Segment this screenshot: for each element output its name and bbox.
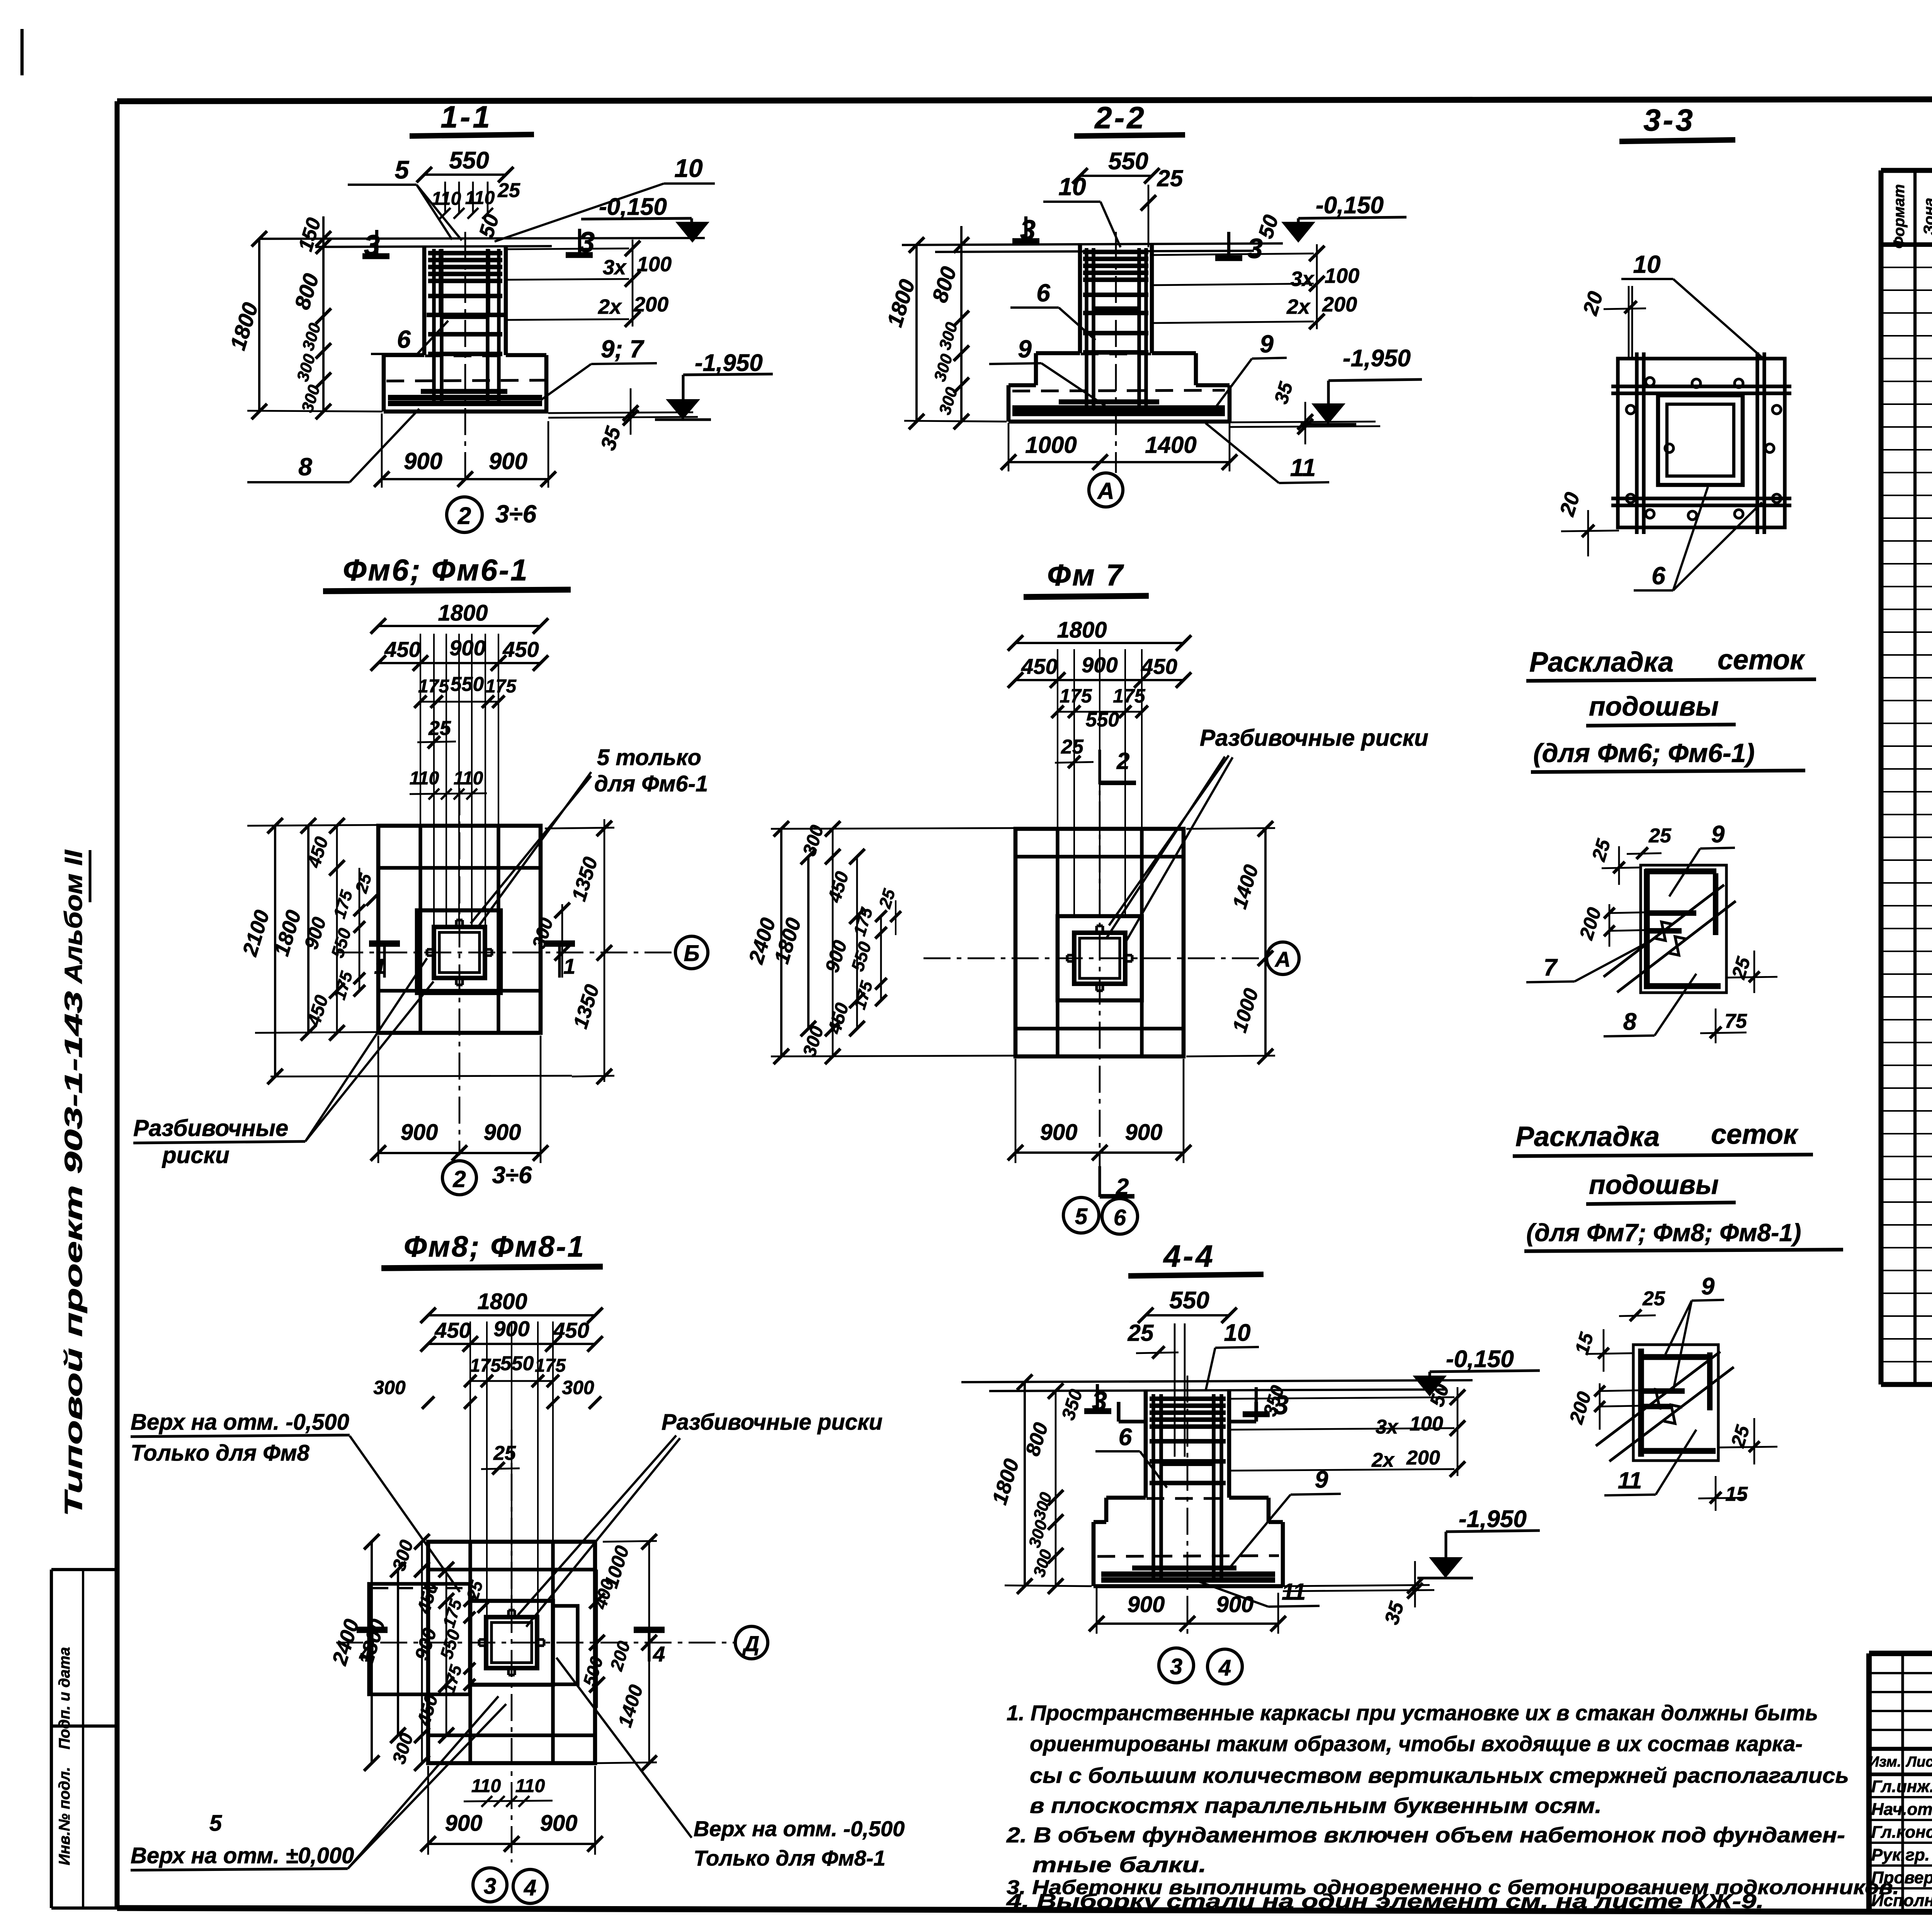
svg-text:175: 175 [1060, 685, 1092, 707]
svg-text:Разбивочные риски: Разбивочные риски [662, 1410, 883, 1435]
svg-text:подошвы: подошвы [1589, 691, 1719, 721]
svg-text:3: 3 [1170, 1654, 1182, 1679]
svg-text:550: 550 [500, 1352, 534, 1375]
socket inner square [1080, 938, 1120, 978]
svg-text:1800: 1800 [882, 277, 920, 330]
svg-text:1000: 1000 [1025, 432, 1077, 458]
svg-text:300: 300 [389, 1731, 417, 1766]
svg-text:550: 550 [1086, 709, 1119, 731]
svg-text:110: 110 [465, 188, 495, 208]
svg-text:9: 9 [1260, 330, 1274, 358]
svg-text:550: 550 [1169, 1287, 1209, 1314]
svg-text:75: 75 [1725, 1010, 1747, 1032]
svg-text:Только для Фм8: Только для Фм8 [131, 1440, 310, 1466]
svg-text:300: 300 [935, 320, 961, 352]
risk tabs [507, 1610, 510, 1617]
plan Фм6 podkolonnik square [417, 910, 501, 993]
svg-text:900: 900 [401, 1120, 438, 1145]
svg-text:3÷6: 3÷6 [495, 500, 537, 528]
svg-text:4: 4 [359, 1642, 371, 1666]
svg-text:110: 110 [432, 189, 461, 209]
svg-text:Раскладка: Раскладка [1529, 647, 1673, 678]
svg-text:Д: Д [742, 1631, 759, 1656]
svg-text:2100: 2100 [238, 908, 274, 959]
svg-text:20: 20 [1578, 289, 1607, 318]
svg-text:25: 25 [493, 1442, 516, 1464]
svg-text:25: 25 [1648, 825, 1672, 847]
svg-text:9: 9 [1711, 821, 1725, 848]
svg-text:550: 550 [449, 147, 489, 174]
svg-text:200: 200 [1322, 293, 1357, 316]
svg-text:175: 175 [485, 676, 517, 697]
section 1-1 pedestal step [384, 353, 424, 357]
section 1-1 hidden dashed lines [425, 354, 505, 357]
svg-text:7: 7 [1544, 954, 1558, 981]
plan Фм6 inner verticals [418, 826, 422, 1033]
svg-text:(для Фм7; Фм8; Фм8-1): (для Фм7; Фм8; Фм8-1) [1526, 1219, 1801, 1247]
svg-text:200: 200 [606, 1639, 634, 1673]
section 4-4 centerline [1187, 1376, 1189, 1638]
section 4-4 footing mesh [1132, 1566, 1236, 1571]
svg-text:10: 10 [1058, 173, 1086, 201]
section 3-3 bar end dots [1646, 378, 1654, 386]
section 1-1 centerline [464, 232, 466, 479]
svg-text:9: 9 [1018, 335, 1032, 363]
svg-text:3x: 3x [603, 256, 627, 279]
svg-text:риски: риски [162, 1142, 230, 1168]
section 4-4 dim verticals into socket [1174, 1323, 1176, 1457]
plan Фм6 left ext lines [247, 825, 378, 826]
plan Фм8 cut mark 4 right [634, 1627, 665, 1633]
raskladka 2 break diagonals [1596, 1352, 1720, 1446]
section 1-1 bottom ext lines [548, 412, 693, 413]
section 3-3 vertical struts [1635, 352, 1638, 534]
section 4-4 bars [1150, 1396, 1226, 1401]
svg-text:ориентированы таким образом,: ориентированы таким образом, чтобы входя… [1030, 1731, 1803, 1756]
plan Фм8 axis circle Д [735, 1626, 768, 1659]
svg-text:-0,150: -0,150 [599, 194, 667, 220]
svg-text:2x: 2x [1371, 1449, 1395, 1471]
plan Фм6 inner horizontals [378, 866, 541, 869]
svg-text:450: 450 [434, 1318, 471, 1342]
svg-text:900: 900 [411, 1626, 441, 1663]
svg-text:3: 3 [1247, 233, 1263, 264]
section 1-1 footing bottom [384, 410, 548, 414]
plan Фм6 extension verticals from dims [420, 634, 421, 927]
socket inner square [492, 1622, 532, 1663]
plan Фм8 cut mark 4 left [357, 1627, 388, 1633]
svg-text:1400: 1400 [1145, 432, 1196, 458]
svg-text:1: 1 [374, 954, 386, 978]
plan Фм7 left ext lines [771, 828, 1015, 829]
svg-text:350: 350 [1058, 1387, 1087, 1422]
svg-text:25: 25 [497, 179, 520, 202]
socket inner square [439, 932, 480, 973]
svg-text:Зона: Зона [1921, 198, 1932, 235]
plan Фм6 cut mark 1 right [544, 940, 575, 947]
svg-text:9: 9 [1701, 1273, 1715, 1300]
svg-text:Подп. и дата: Подп. и дата [56, 1647, 73, 1750]
svg-text:4: 4 [1218, 1655, 1231, 1680]
svg-text:Альбом II: Альбом II [60, 850, 87, 985]
section 2-2 bars [1083, 250, 1148, 254]
svg-text:300: 300 [298, 383, 324, 415]
svg-text:300: 300 [1025, 1518, 1051, 1550]
svg-text:1400: 1400 [1228, 862, 1263, 912]
svg-text:Гл.инж.пр.: Гл.инж.пр. [1871, 1777, 1932, 1796]
svg-text:550: 550 [327, 926, 355, 960]
svg-text:в плоскостях параллельным бу: в плоскостях параллельным буквенным осям… [1030, 1793, 1602, 1818]
plan Фм8 outer rect [428, 1542, 595, 1763]
socket outer square [1074, 933, 1125, 984]
svg-text:1800: 1800 [988, 1456, 1024, 1507]
svg-text:500: 500 [579, 1654, 607, 1689]
svg-text:175: 175 [330, 969, 356, 1002]
raskladka 2 rect [1633, 1345, 1718, 1461]
svg-text:110: 110 [515, 1776, 545, 1796]
plan Фм7 inner verticals [1056, 829, 1059, 1056]
section 4-4 stakan [1159, 1396, 1163, 1463]
svg-text:25: 25 [352, 871, 376, 896]
section 4-4 column [1144, 1391, 1148, 1498]
svg-text:15: 15 [1725, 1483, 1748, 1505]
svg-text:20: 20 [1555, 490, 1584, 519]
svg-text:подошвы: подошвы [1589, 1170, 1719, 1200]
svg-text:сы с большим количеством ве: сы с большим количеством вертикальных ст… [1030, 1763, 1849, 1787]
svg-text:1: 1 [563, 954, 575, 978]
section 1-1 ground lines [260, 238, 705, 239]
svg-text:200: 200 [1565, 1389, 1595, 1427]
plan Фм8 inner verticals [468, 1542, 472, 1763]
socket outer square [434, 927, 485, 978]
svg-text:50: 50 [474, 211, 503, 240]
svg-text:1400: 1400 [614, 1682, 647, 1730]
svg-text:450: 450 [413, 1692, 442, 1728]
raskladka 1 break diagonals [1604, 885, 1724, 977]
svg-text:2: 2 [452, 1166, 466, 1192]
svg-text:Верх на отм. -0,500: Верх на отм. -0,500 [694, 1816, 905, 1841]
svg-text:2x: 2x [598, 295, 622, 318]
plan Фм7 ext verticals [1057, 649, 1058, 916]
raskladka 1 mesh bars [1645, 868, 1716, 874]
svg-text:450: 450 [1021, 654, 1057, 679]
svg-text:100: 100 [1410, 1413, 1443, 1435]
section 4-4 hidden dashed [1146, 1497, 1228, 1500]
svg-text:А: А [1274, 947, 1291, 971]
svg-text:Лист: Лист [1905, 1754, 1932, 1770]
plan Фм8 axis circles 3 4 [473, 1868, 507, 1902]
section 1-1 horizontal bars [428, 251, 502, 255]
section 2-2 footing [1009, 383, 1036, 388]
section 4-4 ground lines [961, 1380, 1473, 1382]
svg-text:300: 300 [562, 1377, 594, 1398]
svg-text:900: 900 [449, 636, 485, 660]
svg-text:35: 35 [1381, 1599, 1409, 1627]
section 1-1 footing mesh [421, 389, 507, 394]
svg-text:300: 300 [930, 352, 956, 384]
plan Фм6 cut mark 1 left [369, 940, 400, 947]
svg-text:Гл.констр.: Гл.констр. [1871, 1823, 1932, 1842]
svg-text:11: 11 [1618, 1468, 1642, 1493]
svg-text:6: 6 [397, 325, 411, 353]
svg-text:-1,950: -1,950 [695, 350, 763, 376]
plan Фм6 outer square [378, 826, 541, 1033]
plan Фм7 axis circles 5 6 [1063, 1197, 1099, 1233]
svg-text:800: 800 [927, 264, 961, 305]
svg-text:300: 300 [389, 1537, 417, 1573]
svg-text:35: 35 [1270, 379, 1297, 406]
svg-text:Верх на отм. ±0,000: Верх на отм. ±0,000 [131, 1843, 354, 1868]
svg-text:Раскладка: Раскладка [1515, 1121, 1660, 1152]
risk tabs [1095, 926, 1098, 933]
svg-text:175: 175 [1113, 685, 1146, 707]
svg-text:5: 5 [395, 155, 410, 184]
svg-text:8: 8 [298, 453, 312, 481]
plan Фм7 podkolonnik [1058, 916, 1142, 1000]
section 2-2 hidden dashed [1081, 352, 1151, 355]
section 2-2 stakan [1092, 249, 1095, 309]
svg-text:25: 25 [1128, 1320, 1154, 1346]
svg-text:1-1: 1-1 [440, 100, 492, 134]
svg-text:8: 8 [1623, 1009, 1637, 1035]
svg-text:4: 4 [653, 1642, 665, 1666]
svg-text:35: 35 [596, 423, 625, 453]
socket outer square [486, 1617, 537, 1668]
svg-text:550: 550 [847, 939, 875, 974]
svg-text:175: 175 [535, 1355, 566, 1376]
svg-text:100: 100 [637, 253, 672, 276]
svg-text:6: 6 [1036, 279, 1050, 307]
svg-text:Разбивочные: Разбивочные [133, 1115, 288, 1141]
svg-text:900: 900 [300, 915, 330, 952]
section 4-4 axis circles 3 4 [1159, 1648, 1194, 1683]
raskladka 1 rect [1641, 865, 1726, 993]
svg-text:(для Фм6; Фм6-1): (для Фм6; Фм6-1) [1533, 738, 1755, 768]
svg-text:1800: 1800 [225, 300, 263, 353]
svg-text:450: 450 [824, 1000, 853, 1036]
plan Фм6 axis circle Б [675, 936, 708, 969]
svg-text:200: 200 [1575, 905, 1605, 942]
svg-text:Исполн.: Исполн. [1871, 1891, 1932, 1910]
svg-text:110: 110 [454, 768, 483, 789]
svg-text:900: 900 [404, 448, 442, 474]
section 4-4 footing [1094, 1520, 1106, 1524]
svg-text:175: 175 [439, 1663, 466, 1696]
svg-text:2: 2 [1116, 748, 1129, 774]
section 2-2 centerline [1115, 232, 1117, 473]
section 3-3 outer square [1618, 359, 1785, 527]
svg-text:900: 900 [1040, 1120, 1078, 1145]
svg-text:Инв.№ подл.: Инв.№ подл. [56, 1767, 73, 1866]
svg-text:1000: 1000 [1228, 986, 1263, 1035]
svg-text:300: 300 [1030, 1548, 1056, 1580]
plan Фм7 outer rect [1015, 829, 1184, 1056]
section 2-2 ground lines [902, 243, 1283, 245]
svg-text:900: 900 [1128, 1592, 1165, 1617]
plan Фм6 axis circle 2 bottom [442, 1161, 476, 1195]
section 2-2 axis circle А [1089, 473, 1123, 507]
svg-text:2x: 2x [1286, 295, 1311, 318]
svg-text:25: 25 [1727, 1422, 1754, 1450]
svg-text:25: 25 [1157, 165, 1184, 191]
svg-text:3-3: 3-3 [1643, 103, 1695, 137]
svg-text:175: 175 [850, 979, 876, 1012]
svg-text:300: 300 [1030, 1490, 1056, 1522]
spec table frame [1881, 168, 1932, 173]
plan Фм8 centerlines [336, 1642, 734, 1644]
svg-text:450: 450 [824, 869, 853, 905]
svg-text:175: 175 [330, 888, 356, 921]
svg-text:3x: 3x [1291, 267, 1315, 291]
svg-text:11: 11 [1290, 454, 1316, 481]
svg-text:300: 300 [299, 321, 325, 353]
svg-text:5: 5 [209, 1811, 222, 1836]
plan Фм7 inner horizontals [1015, 855, 1184, 858]
plan Фм8 inner horizontals [428, 1568, 595, 1571]
svg-text:6: 6 [1114, 1205, 1126, 1230]
svg-text:Фм 7: Фм 7 [1047, 558, 1124, 592]
svg-text:Б: Б [684, 941, 699, 966]
svg-text:10: 10 [674, 154, 703, 182]
svg-text:Фм6; Фм6-1: Фм6; Фм6-1 [343, 553, 529, 587]
left margin cells [51, 1568, 117, 1571]
title block frame [1869, 1651, 1932, 1656]
svg-text:450: 450 [502, 637, 539, 662]
svg-text:3: 3 [484, 1874, 496, 1899]
svg-text:900: 900 [1125, 1120, 1163, 1145]
svg-text:3÷6: 3÷6 [492, 1162, 532, 1189]
svg-text:-1,950: -1,950 [1343, 345, 1411, 372]
svg-text:300: 300 [799, 1024, 828, 1059]
section 3-3 inner socket [1658, 395, 1743, 485]
svg-text:сеток: сеток [1718, 645, 1805, 675]
svg-text:300: 300 [293, 352, 319, 384]
svg-text:900: 900 [489, 448, 527, 474]
section 1-1 vertical bars [432, 249, 435, 405]
svg-text:А: А [1097, 478, 1114, 504]
svg-text:Типовой проект 903-1-143: Типовой проект 903-1-143 [60, 991, 87, 1517]
svg-text:550: 550 [1108, 148, 1148, 175]
spec table row rules [1881, 267, 1932, 268]
svg-text:900: 900 [540, 1811, 578, 1836]
svg-text:110: 110 [471, 1776, 501, 1796]
svg-text:9: 9 [1315, 1466, 1328, 1493]
svg-text:Рук.гр.: Рук.гр. [1871, 1845, 1930, 1864]
section 2-2 pedestal [1036, 351, 1080, 355]
svg-text:10: 10 [1633, 250, 1660, 278]
svg-text:1350: 1350 [568, 854, 602, 904]
svg-text:Верх на отм. -0,500: Верх на отм. -0,500 [131, 1410, 349, 1435]
svg-text:для Фм6-1: для Фм6-1 [594, 771, 708, 796]
svg-text:175: 175 [850, 905, 876, 938]
plan Фм8 ext verticals [469, 1321, 471, 1615]
svg-text:25: 25 [1061, 736, 1084, 758]
svg-text:800: 800 [290, 270, 324, 312]
section 2-2 footing mesh [1059, 400, 1159, 405]
svg-text:6: 6 [1651, 562, 1665, 590]
svg-text:2-2: 2-2 [1094, 100, 1146, 135]
svg-text:-0,150: -0,150 [1316, 192, 1384, 219]
section 1-1 stakan walls [439, 249, 442, 316]
section 3-3 horizontal struts [1611, 384, 1791, 388]
svg-text:175: 175 [470, 1355, 501, 1376]
svg-text:450: 450 [384, 637, 420, 662]
svg-text:Только для Фм8-1: Только для Фм8-1 [694, 1846, 886, 1870]
svg-text:4: 4 [524, 1875, 536, 1900]
svg-text:1800: 1800 [477, 1289, 527, 1314]
svg-text:-0,150: -0,150 [1446, 1346, 1514, 1372]
svg-text:4. Выборку стали на один эл: 4. Выборку стали на один элемент см. на … [1006, 1890, 1764, 1913]
plan Фм8 nabetonka rect left [369, 1584, 470, 1694]
svg-text:5 только: 5 только [597, 745, 701, 770]
svg-text:Разбивочные риски: Разбивочные риски [1200, 725, 1429, 751]
svg-text:Фм8; Фм8-1: Фм8; Фм8-1 [404, 1230, 585, 1263]
plan Фм6 centerlines [336, 952, 676, 954]
svg-text:4-4: 4-4 [1163, 1239, 1215, 1273]
svg-text:Формат: Формат [1891, 184, 1908, 249]
svg-text:1. Пространственные каркасы: 1. Пространственные каркасы при установк… [1007, 1701, 1818, 1725]
fold mark top-left [20, 29, 24, 75]
svg-text:5: 5 [1075, 1204, 1088, 1229]
svg-text:9; 7: 9; 7 [601, 335, 645, 363]
svg-text:1800: 1800 [1057, 617, 1107, 643]
svg-text:-1,950: -1,950 [1459, 1506, 1527, 1532]
svg-text:Провер.: Провер. [1871, 1868, 1932, 1887]
svg-text:900: 900 [484, 1120, 521, 1145]
svg-text:900: 900 [821, 938, 851, 975]
svg-text:25: 25 [1588, 836, 1615, 864]
svg-text:11: 11 [1282, 1579, 1306, 1605]
svg-text:Изм.: Изм. [1869, 1754, 1901, 1770]
section 1-1 axis circle 2 [447, 497, 482, 532]
plan Фм7 centerlines [923, 957, 1267, 959]
svg-text:сеток: сеток [1711, 1119, 1799, 1150]
title block sign rows [1869, 1796, 1932, 1798]
svg-text:6: 6 [1119, 1424, 1132, 1451]
svg-text:10: 10 [1224, 1320, 1251, 1346]
sheet frame [117, 99, 1932, 101]
title block revision rows [1869, 1672, 1932, 1674]
plan Фм8 nabetonka stub right [553, 1606, 578, 1684]
plan Фм7 axis circle А [1267, 942, 1299, 975]
svg-text:100: 100 [1325, 264, 1359, 287]
svg-text:550: 550 [451, 673, 484, 696]
svg-text:1350: 1350 [569, 982, 604, 1031]
svg-text:300: 300 [373, 1377, 406, 1398]
svg-text:1800: 1800 [438, 600, 488, 626]
svg-text:2: 2 [457, 503, 471, 529]
svg-text:900: 900 [445, 1811, 483, 1836]
svg-text:2. В объем фундаментов включ: 2. В объем фундаментов включен объем наб… [1006, 1823, 1845, 1847]
svg-text:25: 25 [1642, 1287, 1665, 1310]
section 2-2 column [1078, 245, 1082, 353]
svg-text:3x: 3x [1376, 1416, 1399, 1438]
svg-text:200: 200 [1406, 1447, 1440, 1469]
svg-text:15: 15 [1571, 1330, 1598, 1357]
raskladka 2 mesh bars [1638, 1354, 1713, 1360]
svg-text:тные балки.: тные балки. [1032, 1852, 1206, 1877]
svg-text:800: 800 [1021, 1420, 1053, 1459]
section 4-4 top stubs [1117, 1402, 1120, 1422]
section 1-1 column outline [422, 246, 427, 355]
section 4-4 pedestal [1106, 1496, 1146, 1500]
section 4-4 ext lines right [1283, 1585, 1430, 1586]
svg-text:Нач.отд.: Нач.отд. [1871, 1800, 1932, 1819]
plan Фм8 podkolonnik [470, 1601, 553, 1685]
risk tabs [455, 920, 457, 927]
